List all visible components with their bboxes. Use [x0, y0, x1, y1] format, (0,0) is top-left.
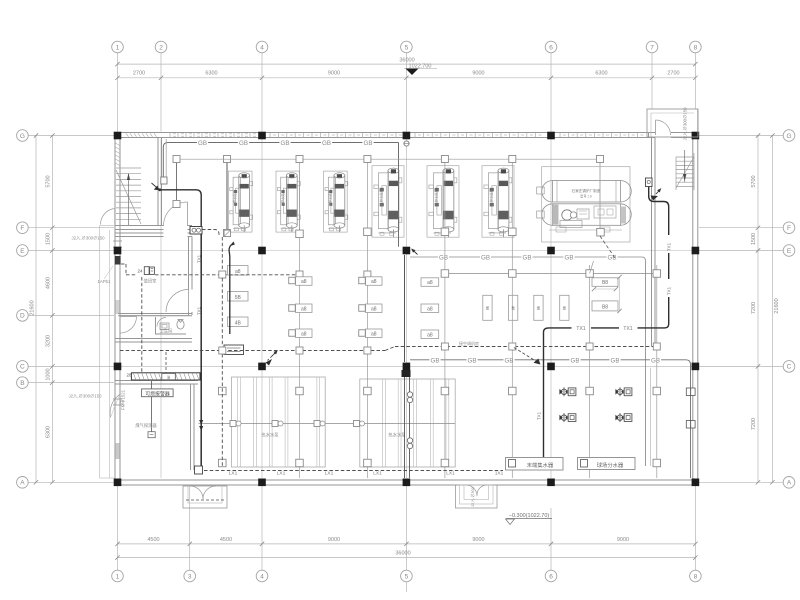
luminaire line L2 [410, 257, 646, 466]
svg-text:泵: 泵 [511, 306, 515, 311]
svg-text:TX1: TX1 [537, 411, 542, 420]
pit top square x589 [586, 387, 594, 395]
axis bubble 4 top [256, 41, 268, 53]
grid line A (right stub) [699, 481, 783, 483]
fixture row line y273 [441, 273, 658, 275]
gas alarm box [142, 389, 174, 397]
svg-text:4500: 4500 [220, 537, 232, 543]
luminaire line L3 [410, 360, 691, 478]
busway 28 [131, 373, 200, 380]
TX1 wire right riser [649, 187, 669, 236]
svg-text:GB: GB [431, 357, 440, 364]
fixture square on dashed y273 [219, 271, 226, 278]
row273 square x657 [653, 270, 661, 278]
svg-text:E: E [787, 248, 792, 255]
svg-text:GB: GB [322, 140, 331, 147]
svg-text:GB: GB [565, 255, 574, 262]
axis bubble F right [783, 222, 795, 234]
svg-text:3200: 3200 [46, 335, 52, 347]
svg-text:5700: 5700 [751, 175, 757, 187]
busway label box [162, 373, 176, 379]
dashed arrow to grid4/C column [268, 352, 277, 361]
svg-text:煤气探测器: 煤气探测器 [135, 422, 157, 429]
pit top square x512 [509, 387, 517, 395]
axis bubble F left [17, 222, 29, 234]
branch device on dashed circuit [224, 345, 244, 355]
grid line 4 (top stub) [261, 53, 263, 132]
left wall vent marks lower [113, 398, 122, 400]
stair (top right) arrow [684, 150, 686, 182]
axis bubble 8 top [690, 41, 702, 53]
svg-text:J2入,∅300∅150: J2入,∅300∅150 [69, 394, 103, 399]
gas alarm drop line [151, 381, 153, 389]
axis bubble B left [17, 377, 29, 389]
stair (top left) cut line [116, 170, 141, 224]
main feed arrow [152, 183, 158, 188]
svg-text:6300: 6300 [595, 71, 607, 77]
dashed circuit from feed device [202, 230, 219, 237]
TX1 small arrow [656, 189, 661, 195]
gas detector box [148, 432, 155, 438]
svg-text:末端集水器: 末端集水器 [527, 461, 554, 469]
top wall louver ticks 4-5 [269, 133, 271, 138]
fixture column line x589 [589, 265, 591, 478]
dashed vertical circuit x222 [221, 237, 223, 271]
label a8 col296 row3 [296, 329, 313, 338]
vertical equip rect 4 [560, 295, 569, 320]
boiler unit 2 [276, 171, 300, 232]
svg-text:8: 8 [694, 44, 698, 51]
fixture top square x299 [296, 156, 303, 163]
svg-text:9000: 9000 [472, 537, 484, 543]
dashed circuit duty device to fixture [155, 274, 296, 276]
exterior door in left wall (lower) [110, 395, 119, 418]
riser corner box [195, 466, 203, 474]
fixture column line x445 [444, 163, 446, 479]
label a8 col430 row1 [421, 278, 439, 287]
svg-text:A: A [787, 480, 792, 487]
left wall vent marks upper [113, 240, 122, 242]
svg-text:GB: GB [611, 357, 620, 364]
svg-text:4: 4 [260, 44, 264, 51]
svg-text:28: 28 [126, 373, 132, 378]
luminaire pair L2-5 [606, 253, 617, 260]
column grid4/A [258, 479, 266, 487]
grid line 8 (top stub) [694, 53, 696, 109]
boiler unit 4 [372, 166, 404, 238]
svg-text:TX1: TX1 [666, 286, 671, 295]
grid line E interior [121, 250, 692, 252]
fixture top square x176 [173, 156, 180, 163]
fixture square dashed y350 x367 [364, 347, 371, 354]
duty room east wall [188, 237, 190, 290]
svg-text:GB: GB [571, 357, 580, 364]
grid line 6 (bottom stub) [550, 508, 552, 570]
bottom segment dimension line [118, 543, 696, 545]
fixture top square x227 [224, 156, 231, 163]
grid line 4 interior [261, 139, 263, 478]
grid5 drop wire to C [404, 255, 406, 362]
svg-text:B8: B8 [602, 280, 608, 286]
row273 square x589 [586, 270, 594, 278]
grid line 8 (bottom stub) [694, 486, 696, 570]
axis bubble E left [17, 245, 29, 257]
svg-text:21600: 21600 [30, 300, 36, 315]
svg-text:G: G [786, 133, 791, 140]
svg-text:9000: 9000 [617, 537, 629, 543]
grid line E (left stub) [29, 250, 115, 252]
exterior apron line left [99, 226, 101, 479]
luminaire pair L1-5 [362, 139, 373, 146]
pump pit 2 outline [360, 379, 455, 467]
svg-text:8: 8 [694, 573, 698, 580]
svg-text:6: 6 [549, 573, 553, 580]
lower room north wall on B axis [115, 380, 198, 382]
svg-text:J2入,∅300∅150: J2入,∅300∅150 [72, 236, 106, 241]
top squares connector line [180, 158, 597, 160]
exterior apron line left inner [109, 230, 111, 478]
fixture mid square x445 [441, 228, 449, 236]
axis bubble 6 bottom [545, 570, 557, 582]
svg-text:GB: GB [439, 255, 448, 262]
exterior door in left wall (duty room) [120, 316, 137, 318]
left wall vent band mid [116, 300, 120, 314]
svg-text:5700: 5700 [46, 175, 52, 187]
fixture mid square x299 [296, 230, 304, 238]
column grid5/C [403, 363, 411, 371]
tank vessel upper [553, 181, 621, 203]
riser wire TX1 left [200, 234, 202, 466]
svg-text:4500: 4500 [147, 537, 159, 543]
fixture column line x512 [511, 163, 513, 479]
TX1 right device [646, 178, 653, 187]
pit top square x656 [653, 387, 661, 395]
svg-text:1: 1 [116, 573, 120, 580]
svg-text:6: 6 [549, 44, 553, 51]
pit bottom square x222 [219, 459, 227, 467]
left wall hatch below G [115, 143, 119, 146]
svg-text:a8: a8 [235, 269, 241, 275]
fixture mid square x512 [509, 228, 517, 236]
right segment dimension line [757, 136, 759, 483]
grid line 1 (bottom stub) [117, 486, 119, 570]
luminaire pair L2-1 [438, 253, 449, 260]
stair (top left) treads [116, 167, 141, 169]
svg-text:F: F [787, 225, 791, 232]
bottom vestibule 2 (grid5-6) outline) [456, 485, 498, 508]
small arrow above grid4C [272, 351, 278, 357]
toilet south wall [156, 333, 187, 335]
svg-text:浴: 浴 [167, 375, 171, 380]
fixture square col296 row2 [289, 305, 296, 312]
svg-text:型号 1.6: 型号 1.6 [580, 194, 592, 199]
partition line bottom right [650, 368, 652, 466]
svg-text:B: B [20, 380, 24, 387]
axis bubble D left [17, 310, 29, 322]
riser arrow marks [199, 420, 203, 425]
svg-text:TX1: TX1 [197, 306, 202, 315]
pit bottom square x656 [653, 459, 661, 467]
label bracket col590 [594, 288, 616, 290]
fixture square dashed y346 x589 [586, 343, 593, 350]
fixture column line x657 [656, 265, 658, 478]
distributor box (field header) [578, 458, 636, 470]
axis bubble 4 bottom [256, 570, 268, 582]
svg-text:1APb1: 1APb1 [98, 279, 112, 284]
tank column line x600 [599, 163, 601, 236]
luminaire pair L2-4 [563, 253, 574, 260]
stair (top right) side rail [675, 157, 677, 190]
svg-text:热水水泵: 热水水泵 [261, 432, 279, 439]
axis bubble 1 top [112, 41, 124, 53]
svg-text:D: D [20, 313, 25, 320]
svg-text:21600: 21600 [774, 298, 780, 313]
dashed circuit row y350 left [120, 350, 385, 352]
svg-text:GB: GB [523, 255, 532, 262]
duty room east wall lower stub [188, 312, 190, 315]
bottom vestibule (grid3-4) outline [183, 486, 227, 508]
svg-text:24: 24 [137, 269, 143, 274]
end pump 1 [561, 389, 566, 394]
grid line 3 (bottom stub) [189, 486, 191, 570]
L1 stub box [161, 177, 167, 184]
luminaire pair L3-3 [503, 356, 514, 363]
svg-text:a8: a8 [371, 331, 377, 337]
top wall window hatch 1-2 [126, 133, 129, 136]
fixture square col299 on D1 [296, 271, 303, 278]
grid line D interior (rooms) [121, 314, 190, 316]
axis bubble 2 top [155, 41, 167, 53]
top wall louver ticks 6-7 [559, 133, 561, 138]
fixture square col367 on D1 [364, 271, 371, 278]
axis bubble 7 top [646, 41, 658, 53]
grid line D (left stub) [29, 314, 115, 316]
svg-text:LX1: LX1 [373, 471, 382, 477]
svg-text:泵: 泵 [486, 306, 490, 311]
pit middle connection line [199, 423, 456, 425]
boiler unit 1 [228, 171, 252, 232]
wall below F axis [115, 232, 164, 234]
fixture column line x367 [366, 163, 368, 479]
pump room east wall [190, 384, 192, 470]
stair (top right) cut line [676, 157, 694, 188]
distribution panel 1AP on left wall [115, 256, 121, 265]
svg-text:a8: a8 [427, 306, 433, 312]
axis bubble C left [17, 361, 29, 373]
luminaire pair L2-3 [521, 253, 532, 260]
fixture square near feed [224, 230, 231, 237]
svg-text:热水水泵: 热水水泵 [388, 432, 406, 439]
room south wall [115, 338, 192, 340]
svg-text:TX1: TX1 [197, 254, 202, 263]
end pump 4 [617, 415, 622, 420]
fixture bottom square x227 [224, 230, 231, 237]
dashed circuit LX1 run [204, 470, 503, 472]
svg-text:球场分水器: 球场分水器 [597, 461, 624, 469]
pit bottom square x512 [509, 459, 517, 467]
svg-text:9000: 9000 [328, 71, 340, 77]
column grid6/C [547, 363, 555, 371]
left segment dimension line [51, 136, 53, 483]
pit top square x367 [364, 387, 372, 395]
grid line E (right stub) [699, 250, 783, 252]
luminaire pair L1-2 [238, 139, 249, 146]
grid line A (left stub) [29, 481, 115, 483]
luminaire pair L3-4 [569, 356, 580, 363]
column grid6/E [547, 247, 555, 255]
grid line 4 (bottom stub) [261, 486, 263, 570]
label 5B col228 row2 [228, 292, 249, 302]
pump pit 1 outline [232, 377, 326, 467]
tank dashed diagonal [600, 236, 615, 258]
feed device box [190, 227, 202, 235]
dashed arrow to grid6/C column [514, 348, 538, 363]
pit line device pair 3 [314, 421, 320, 427]
fixture square dashed y346 x512 [509, 343, 516, 350]
column grid6/G [547, 132, 555, 140]
svg-text:LX1: LX1 [229, 471, 238, 477]
axis bubble 1 bottom [112, 570, 124, 582]
column grid8/C [692, 363, 700, 371]
svg-text:7200: 7200 [751, 302, 757, 314]
fixture top square x512 [509, 156, 516, 163]
grid line F (left stub) [29, 227, 115, 229]
tank pump motor [562, 210, 572, 220]
column grid8/A [692, 479, 700, 487]
svg-text:1500: 1500 [46, 233, 52, 245]
corridor wall right [651, 137, 653, 346]
ceiling outlet at grid5 wall [404, 141, 409, 146]
fixture top square x367 [364, 156, 371, 163]
svg-text:5: 5 [405, 44, 409, 51]
luminaire pair L1-4 [321, 139, 332, 146]
top-right vestibule door [656, 120, 671, 135]
boiler unit 3 [324, 171, 348, 232]
grid line C (left stub) [29, 365, 115, 367]
svg-text:a8: a8 [371, 306, 377, 312]
pit line device pair 4 [354, 421, 360, 427]
toilet north wall on D axis [118, 313, 192, 315]
grid line 6 interior [550, 139, 552, 478]
svg-text:GB: GB [364, 140, 373, 147]
axis bubble G left [17, 130, 29, 142]
tank vessel lower [553, 204, 621, 226]
svg-text:F: F [20, 225, 24, 232]
grid5 twin line circles [407, 392, 412, 397]
fixture square col296 row1 [289, 277, 296, 284]
svg-text:GB: GB [198, 140, 207, 147]
svg-text:4600: 4600 [46, 277, 52, 289]
pit bottom square x589 [586, 459, 594, 467]
pump pit 2 channel lines [382, 379, 384, 467]
stair (top right) treads [676, 156, 694, 158]
right wall device 2 [686, 421, 690, 429]
top wall louver ticks 5-6 [414, 133, 416, 138]
fixture column line x299 [299, 163, 301, 479]
stair (top left) arrow [128, 174, 130, 226]
svg-text:C: C [20, 364, 25, 371]
axis bubble 8 bottom [690, 570, 702, 582]
left wall vent band lower [116, 443, 120, 459]
svg-text:2700: 2700 [667, 71, 679, 77]
fixture square dashed y346 x445 [441, 343, 448, 350]
svg-text:1: 1 [116, 44, 120, 51]
tank bottom square x600 [597, 228, 605, 236]
grid line 2 interior [160, 139, 162, 478]
svg-text:2700: 2700 [133, 71, 145, 77]
top overall dimension line 36000 [118, 63, 696, 65]
label B8 col590 row2 [592, 301, 618, 311]
label B8 col590 row1 [592, 278, 618, 287]
grid line 2 (top stub) [160, 53, 162, 132]
dashed circuit from panel to duty device [121, 263, 126, 265]
svg-text:a8: a8 [427, 332, 433, 338]
axis bubble G right [783, 130, 795, 142]
svg-text:4: 4 [260, 573, 264, 580]
axis bubble 6 top [545, 41, 557, 53]
tank unit enclosure [542, 167, 630, 242]
axis bubble 5 top [401, 41, 413, 53]
pit top square x444 [441, 387, 449, 395]
luminaire pair L3-2 [466, 356, 477, 363]
fixture square col367 row3 [359, 330, 366, 337]
pit line device pair 2 [272, 421, 278, 427]
right overall dimension line 21600 [771, 136, 773, 483]
svg-text:GB: GB [239, 140, 248, 147]
svg-text:TX1: TX1 [576, 326, 585, 332]
dashed drop to busway box [165, 352, 167, 373]
grid line F (right stub) [699, 227, 783, 229]
door in duty room east wall [188, 290, 190, 313]
pit bottom square x444 [441, 459, 449, 467]
column grid6/A [547, 479, 555, 487]
dashed circuit jog [385, 347, 395, 351]
label 4B col228 row3 [228, 317, 249, 327]
svg-text:1500: 1500 [751, 233, 757, 245]
black junction filled at pit2 top [402, 370, 411, 377]
svg-text:接空调机房: 接空调机房 [459, 340, 479, 346]
tank base frame [549, 229, 622, 231]
door in F wall [187, 202, 189, 226]
bottom vestibule dashed mark [186, 499, 224, 501]
svg-text:9000: 9000 [328, 537, 340, 543]
luminaire pair L1-3 [279, 139, 290, 146]
column grid5/E [403, 247, 411, 255]
svg-text:7200: 7200 [751, 418, 757, 430]
grid line C (right stub) [699, 365, 783, 367]
tank left nozzle lower [537, 211, 545, 218]
top-right vestibule walls [647, 109, 698, 137]
column grid8/E [692, 247, 700, 255]
svg-text:C: C [787, 364, 792, 371]
collector box (end header) [506, 458, 564, 471]
vertical equip rect 2 [509, 295, 518, 320]
column grid5/A [403, 479, 411, 487]
svg-text:TX1: TX1 [623, 326, 632, 332]
wall on F axis (corridor bottom) [115, 225, 164, 227]
svg-text:A: A [20, 480, 25, 487]
fixture column line x227 [226, 163, 228, 231]
svg-text:6300: 6300 [205, 71, 217, 77]
tank small parts row [594, 206, 616, 218]
svg-text:LX1: LX1 [277, 471, 286, 477]
arrow into grid5/E junction [412, 249, 418, 255]
svg-text:J2入,∅300∅150: J2入,∅300∅150 [683, 107, 688, 141]
svg-text:卫生间: 卫生间 [160, 328, 173, 335]
svg-text:E: E [20, 248, 25, 255]
label a8 col296 row1 [296, 277, 313, 286]
toilet west wall [155, 317, 157, 335]
